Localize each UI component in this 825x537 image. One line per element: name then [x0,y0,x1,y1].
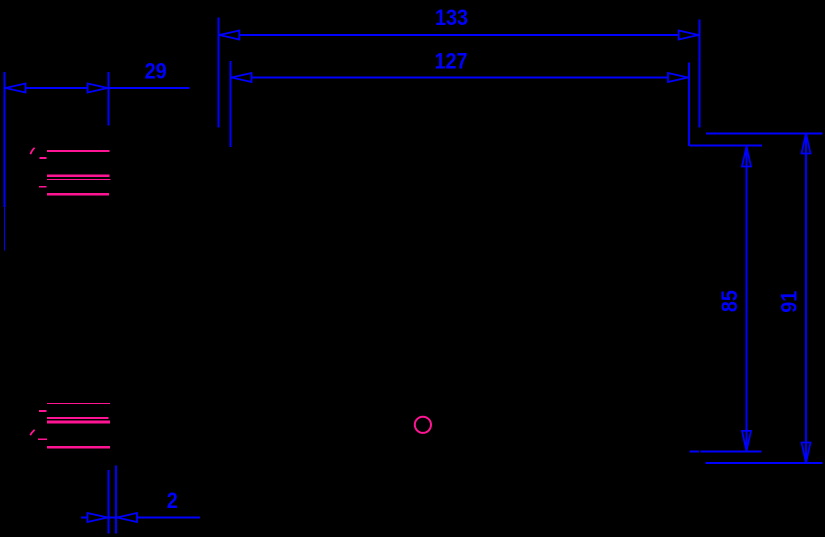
connector detail bottom: dash D [38,438,47,440]
svg-text:133: 133 [435,6,468,30]
dimension 133: right extension line [699,19,701,127]
dimension 133: right arrowhead [679,31,699,40]
dimension 29: right arrowhead [88,84,108,93]
dimension 85: bottom extension line segment b [700,451,761,453]
dimension 29: right extension line [108,72,110,126]
dimension 91: top extension line (object top edge right) [706,133,822,135]
dimension 91: dimension line vertical [805,134,807,463]
dimension 2: left extension line [108,470,110,534]
mounting hole circle [415,417,431,433]
connector detail bottom: dash C [39,410,47,412]
dimension 2: left arrowhead pointing right [88,513,108,522]
dimension 85: bottom arrowhead [742,431,751,451]
dimension 2: right extension line [115,466,117,534]
connector detail top: pin line C thin [47,179,110,181]
dimension 133: dimension line [219,34,700,36]
dimension 127: left extension line [230,61,232,147]
dimension 29: left extension line [4,72,6,207]
dimension 29: left arrowhead [6,84,26,93]
dimension 91: bottom arrowhead [802,443,811,463]
dimension 29: dimension line [4,87,190,89]
dimension 85: top arrowhead [742,147,751,167]
dimension 85: top extension line [690,145,762,147]
connector detail bottom: pin line F [47,417,109,419]
connector detail top: pin line A [47,150,110,152]
connector detail top: dash B [39,186,47,188]
dimension 127: right arrowhead [668,73,688,82]
connector detail bottom: pin line G [47,421,110,424]
dimension 85: dimension line vertical [746,147,748,451]
dimension 85: bottom extension line segment a [690,451,700,453]
dimension 133: left arrowhead [219,31,239,40]
dimension 127: dimension line [231,77,690,79]
svg-text:85: 85 [718,290,742,312]
svg-text:91: 91 [777,290,801,312]
dimension 2: dimension line with outside tails [81,517,200,519]
dimension 29: left extension line thin lower part [4,207,6,251]
connector detail bottom: curl stroke [30,430,34,435]
svg-text:29: 29 [145,59,167,83]
svg-text:127: 127 [434,49,467,73]
connector detail bottom: pin line H [47,446,110,449]
dimension 127: right extension line [688,63,690,146]
connector detail top: dash A [39,157,46,159]
svg-text:2: 2 [167,489,178,513]
connector detail bottom: pin line E thin [47,403,110,405]
dimension 133: left extension line [218,17,220,127]
dimension 127: left arrowhead [232,73,252,82]
dimension 91: bottom extension line [706,462,823,464]
dimension 2: right arrowhead pointing left [117,513,137,522]
connector detail top: curl stroke [30,148,34,154]
connector detail top: pin line D [47,193,109,196]
dimension 91: top arrowhead [802,134,811,154]
connector detail top: pin line B [47,174,110,177]
